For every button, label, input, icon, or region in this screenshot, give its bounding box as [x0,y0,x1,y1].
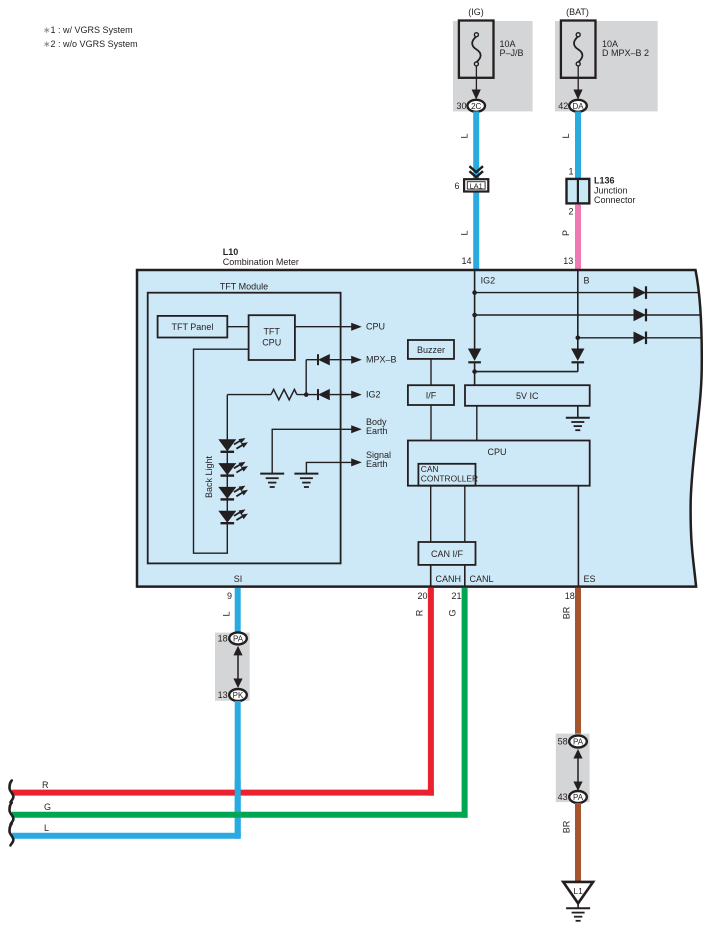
arrow into connector 2C [472,90,481,100]
fuse panel IG gray block [453,21,533,111]
svg-text:PA: PA [233,634,244,643]
node IG2 entry line [474,270,476,349]
svg-text:14: 14 [461,256,471,266]
svg-text:43: 43 [558,792,568,802]
svg-text:CAN: CAN [421,464,439,474]
svg-text:P–J/B: P–J/B [500,48,524,58]
svg-text:I/F: I/F [426,391,437,401]
wire TFT Panel to TFT CPU [227,326,248,328]
svg-text:L: L [222,611,232,616]
wire 5VIC to CPU [476,406,478,441]
CAN CONTROLLER box [418,464,475,486]
diode D8 [634,309,647,322]
svg-text:5V IC: 5V IC [516,391,539,401]
TFT module box [148,293,341,564]
inline connector chevron arrows [469,166,483,177]
svg-text:2C: 2C [471,102,481,111]
ground body earth [260,474,284,487]
wire R red down [428,588,434,796]
svg-text:LA1: LA1 [470,181,483,190]
svg-text:L: L [460,230,470,235]
wire L from LA1 to combination meter pin 14 (blue) [473,192,479,272]
svg-text:Connector: Connector [594,195,636,205]
svg-text:DA: DA [572,102,584,111]
arrow Body Earth [351,425,362,433]
wire diode row 1 [475,292,700,294]
svg-text:2: 2 [568,207,573,217]
svg-text:42: 42 [558,101,568,111]
junction dot row2/IG2 [472,313,477,318]
svg-text:6: 6 [454,181,459,191]
fuse panel BAT gray block [555,21,658,111]
svg-text:IG2: IG2 [481,276,496,286]
svg-text:13: 13 [218,690,228,700]
svg-text:(BAT): (BAT) [566,7,589,17]
fuse F2 10A D MPX-B 2 [561,21,596,93]
arrow MPX-B [351,356,362,364]
svg-text:18: 18 [218,634,228,644]
svg-text:Junction: Junction [594,186,628,196]
svg-text:BR: BR [562,820,572,833]
ground L1 triangle [563,882,593,903]
svg-text:CONTROLLER: CONTROLLER [421,473,478,483]
svg-text:D MPX–B 2: D MPX–B 2 [602,48,649,58]
svg-text:P: P [561,230,571,236]
wire L blue vertical over red [235,780,241,839]
wire G green down [462,588,468,818]
brace G [10,803,14,825]
svg-text:CAN I/F: CAN I/F [431,549,464,559]
svg-text:G: G [44,802,51,812]
wire P from junction connector to pin 13 (pink) [575,205,581,271]
svg-text:9: 9 [227,591,232,601]
svg-text:IG2: IG2 [366,389,381,399]
svg-text:PK: PK [233,691,244,700]
junction connector L136 [567,179,590,204]
svg-text:(IG): (IG) [468,7,484,17]
svg-text:CPU: CPU [366,321,385,331]
resistor R1 [271,389,297,399]
ground signal earth [294,474,318,487]
svg-text:TFT Module: TFT Module [220,282,268,292]
wire TFT CPU to CPU arrow [295,326,354,328]
wire signal earth line [306,462,354,473]
svg-text:R: R [42,780,49,790]
LED D5 [219,486,247,499]
connector block PA/PK (blue leg) [215,633,250,701]
svg-text:TFT: TFT [263,327,280,337]
diode D11 (B leg, down) [571,349,584,361]
wire SI blue down to connector [235,588,241,638]
junction dot row1/IG2 [472,290,477,295]
wire ES from CPU to pin 18 [577,486,579,587]
diode D2 (to IG2) [317,389,319,400]
wire L from 2C to LA1 (blue) [473,112,479,180]
wire joining diodes to 5V IC [475,371,578,373]
LED D6 [219,510,247,523]
arrow Signal Earth [351,458,362,466]
svg-text:Earth: Earth [366,459,388,469]
wire L horizontal (blue) [12,833,241,839]
junction dot row3/B [576,336,581,341]
CPU box [408,441,590,486]
LED D3 [219,438,247,451]
double arrow between PA and PK [233,646,242,688]
svg-text:CANH: CANH [436,574,462,584]
svg-text:L136: L136 [594,176,615,186]
diode D1 (to MPX-B) [317,354,319,365]
double arrow between PA and PA [573,749,582,791]
wire CANH controller to CAN I/F [430,486,432,542]
wire CANL to pin 21 [464,565,466,587]
svg-text:18: 18 [565,591,575,601]
diode D7 [634,286,647,299]
junction dot 5VIC feed [472,369,477,374]
TFT CPU box [249,315,295,360]
wire resistor line [227,394,271,396]
fuse F1 10A P-J/B [459,21,494,93]
svg-text:CPU: CPU [487,447,506,457]
wire diode row 2 [475,314,701,316]
svg-text:Combination Meter: Combination Meter [223,257,299,267]
wire L from DA to junction connector (blue) [575,112,581,179]
svg-text:58: 58 [558,737,568,747]
svg-text:∗2 : w/o VGRS System: ∗2 : w/o VGRS System [43,39,138,49]
svg-text:B: B [584,276,590,286]
svg-text:G: G [448,609,458,616]
svg-text:30: 30 [456,101,466,111]
svg-text:∗1 : w/ VGRS System: ∗1 : w/ VGRS System [43,25,133,35]
wire I/F to CPU [430,405,432,441]
5V IC box [465,385,590,406]
wire CANL controller to CAN I/F [464,486,466,542]
ground 5V IC [566,406,590,430]
TFT Panel box [158,316,228,338]
svg-text:MPX–B: MPX–B [366,355,397,365]
svg-text:CPU: CPU [262,338,281,348]
arrow IG2 [351,391,362,399]
node dot resistor/diode junction [304,392,309,397]
svg-text:PA: PA [573,738,584,747]
svg-text:L: L [44,823,49,833]
svg-text:SI: SI [234,574,243,584]
svg-text:20: 20 [417,591,427,601]
svg-text:Back Light: Back Light [204,455,214,498]
svg-text:ES: ES [584,574,596,584]
connector block PA/PA (brown leg) [556,734,590,803]
svg-text:TFT Panel: TFT Panel [171,322,213,332]
ground L1 earth symbol [566,903,590,921]
svg-text:21: 21 [451,591,461,601]
brace L [10,824,14,846]
arrow into connector DA [573,90,582,100]
wire R horizontal (red) [12,790,434,796]
svg-text:Earth: Earth [366,426,388,436]
wire MPX-B branch vertical [305,360,307,395]
svg-text:L: L [561,133,571,138]
wire BR brown from connector to ground [575,803,581,882]
svg-text:Buzzer: Buzzer [417,345,445,355]
wire diode row 3 [578,337,702,339]
wire L blue from PK down to corner [235,701,241,836]
arrow CPU [351,323,362,331]
wire CANH to pin 20 [430,565,432,587]
diode D10 (IG2 leg, down) [468,349,481,361]
diode D9 [634,332,647,345]
Buzzer box [408,340,454,359]
CAN I/F box [418,542,475,565]
wire buzzer to I/F [430,359,432,385]
svg-text:BR: BR [562,606,572,619]
node B entry line [577,270,579,349]
svg-text:L10: L10 [223,247,239,257]
wire G horizontal (green) [12,812,468,818]
svg-text:13: 13 [563,256,573,266]
svg-text:R: R [414,609,424,616]
svg-text:1: 1 [568,167,573,177]
wire TFT CPU left loop [194,349,249,553]
wire body earth line [272,429,354,473]
brace R [10,781,14,803]
svg-text:L1: L1 [573,886,583,896]
combination meter block L10 (light blue, wavy right edge) [137,270,702,587]
I/F box [408,385,454,405]
svg-text:PA: PA [573,793,584,802]
svg-text:CANL: CANL [470,574,494,584]
svg-text:L: L [460,133,470,138]
wire ES brown down [575,588,581,742]
LED D4 [219,462,247,475]
